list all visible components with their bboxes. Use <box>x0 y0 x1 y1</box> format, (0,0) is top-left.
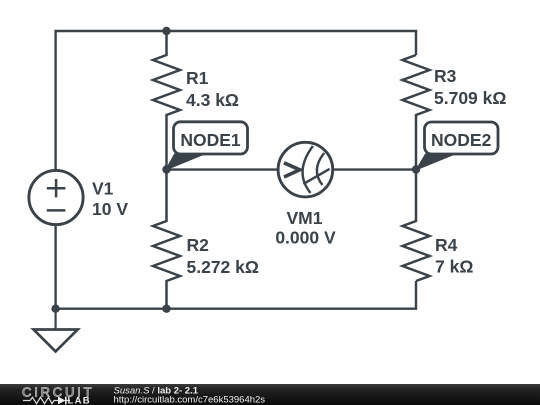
node dot NODE1 <box>162 165 170 173</box>
wire top rail <box>56 31 416 197</box>
wire bottom rail <box>56 197 416 309</box>
node NODE2 callout <box>416 122 498 170</box>
node dot ground <box>51 305 59 313</box>
svg-text:http://circuitlab.com/c7e6k539: http://circuitlab.com/c7e6k53964h2s <box>114 394 266 405</box>
svg-text:4.3 kΩ: 4.3 kΩ <box>186 90 239 110</box>
svg-text:NODE2: NODE2 <box>431 130 492 150</box>
node dot top <box>162 27 170 35</box>
svg-text:R4: R4 <box>435 235 458 255</box>
svg-text:10 V: 10 V <box>92 199 128 219</box>
wire node1 to voltmeter <box>167 168 306 170</box>
svg-text:VM1: VM1 <box>287 208 323 228</box>
node dot bottom <box>162 305 170 313</box>
node NODE1 callout <box>166 122 248 170</box>
voltmeter VM1 <box>278 142 333 197</box>
svg-text:5.272 kΩ: 5.272 kΩ <box>187 257 259 277</box>
node dot NODE2 <box>412 165 420 173</box>
voltage source V1 <box>29 170 83 224</box>
wire voltmeter to node2 <box>305 168 416 170</box>
footer bar <box>0 384 540 405</box>
svg-text:5.709 kΩ: 5.709 kΩ <box>434 88 506 108</box>
svg-text:R2: R2 <box>187 235 210 255</box>
svg-text:0.000 V: 0.000 V <box>275 228 336 248</box>
resistor R1 <box>153 31 180 170</box>
resistor R2 <box>153 170 180 309</box>
svg-text:R3: R3 <box>434 66 457 86</box>
footer CircuitLab logo <box>22 384 94 405</box>
svg-text:R1: R1 <box>186 68 209 88</box>
ground <box>34 309 78 352</box>
svg-text:NODE1: NODE1 <box>180 130 241 150</box>
resistor R4 <box>403 170 430 282</box>
resistor R3 <box>403 55 430 170</box>
svg-text:7 kΩ: 7 kΩ <box>435 257 473 277</box>
svg-text:LAB: LAB <box>68 395 91 405</box>
svg-text:V1: V1 <box>92 179 114 199</box>
